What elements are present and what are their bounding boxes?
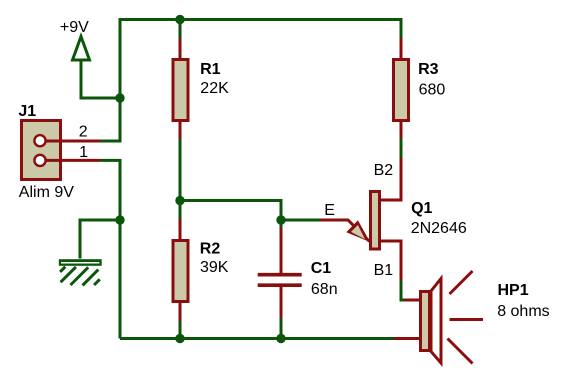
speaker HP1 [421,279,442,364]
ground [59,259,102,285]
HP1 sound line middle [450,318,484,321]
wire HP1 top pin [404,299,420,302]
wire GND net: J1 pin 1 corner down to bottom rail [100,160,120,338]
svg-text:HP1: HP1 [498,282,529,299]
svg-text:22K: 22K [200,80,229,97]
junction at R1 top [175,15,184,24]
junction at R1/R2 node [175,196,184,205]
resistor R2 [173,219,188,322]
wire R2 top stub [179,201,182,220]
svg-text:C1: C1 [311,260,332,277]
svg-text:68n: 68n [311,281,338,298]
svg-text:B2: B2 [374,162,394,179]
HP1 sound line bottom [448,339,473,364]
svg-text:Alim 9V: Alim 9V [19,184,74,201]
resistor R3 [394,38,409,139]
wire R1 top stub [179,20,182,39]
wire C1 top stub [280,220,283,228]
svg-text:+9V: +9V [60,19,89,36]
svg-text:8 ohms: 8 ohms [497,303,549,320]
svg-text:R2: R2 [200,240,221,257]
wire bottom rail [120,337,394,340]
svg-text:Q1: Q1 [411,200,432,217]
capacitor C1 [258,228,302,319]
svg-text:R3: R3 [418,61,439,78]
wire C1 bottom stub [280,318,283,339]
wire HP1 bottom pin [394,337,420,340]
wire +9V power symbol branch [81,61,120,98]
wire node to emitter and C1 [180,201,321,221]
wire +9V net: J1 pin 2 corner, left vertical, top rail, down to R3 [100,20,401,142]
power symbol +9V arrow [73,37,90,61]
junction at +9V branch [115,93,124,102]
resistor R1 [173,39,188,140]
svg-text:E: E [324,202,335,219]
wire R2 bottom stub [179,321,182,339]
svg-text:2: 2 [79,123,88,140]
wire ground tap [80,220,120,259]
svg-text:J1: J1 [18,103,36,120]
junction at R2 bottom [175,334,184,343]
HP1 sound line top [450,271,473,294]
connector J1 [22,121,101,180]
svg-text:B1: B1 [374,262,394,279]
svg-text:2N2646: 2N2646 [411,220,467,237]
junction at E/C1 node [276,215,285,224]
wire B1 to speaker [401,280,405,300]
wire R3 bottom to B2 [400,139,403,159]
junction at C1 bottom [276,334,285,343]
wire R1 bottom to node [179,139,182,201]
transistor Q1 (UJT 2N2646) [320,158,401,281]
svg-text:39K: 39K [200,259,229,276]
svg-text:680: 680 [419,82,446,99]
svg-text:1: 1 [79,144,88,161]
svg-text:R1: R1 [200,61,221,78]
junction at ground tap [115,215,124,224]
